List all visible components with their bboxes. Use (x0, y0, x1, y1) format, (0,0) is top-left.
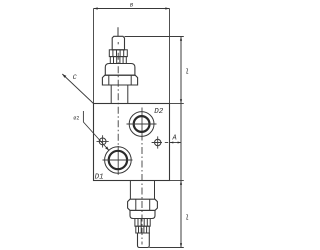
svg-text:l: l (185, 69, 189, 77)
dimension A arrows (170, 142, 181, 144)
top cap extension line to right (125, 36, 184, 38)
svg-text:D2: D2 (154, 108, 164, 116)
bottom cartridge hex nut facet lines (136, 199, 150, 210)
small hole o2 (99, 138, 106, 145)
dimension B arrows (94, 7, 170, 9)
top cartridge hex nut facet lines (109, 75, 131, 85)
upper l arrows (180, 37, 182, 104)
top cartridge hex nut (102, 75, 137, 85)
top cartridge collar (105, 64, 135, 76)
top cartridge cap (112, 36, 124, 50)
svg-text:A: A (172, 135, 177, 143)
small hole right crosshair (152, 136, 162, 148)
bottom cartridge tip (138, 233, 150, 248)
port D2 bold inner circle (134, 116, 150, 132)
port D1 bold inner circle (109, 151, 127, 169)
dimension B extension line left (93, 9, 95, 104)
lower l arrows (180, 181, 182, 248)
bottom cartridge neck (130, 181, 154, 200)
bottom cartridge collar (130, 210, 155, 218)
dimension B line (94, 8, 170, 10)
svg-text:ø2: ø2 (73, 115, 79, 121)
svg-text:D1: D1 (95, 174, 104, 182)
dimension A line (170, 142, 181, 144)
small hole o2 crosshair (97, 135, 109, 147)
svg-text:B: B (130, 1, 134, 8)
leader C line (62, 74, 93, 104)
right vertical dimension line (180, 37, 182, 248)
body bottom edge extension right (170, 180, 184, 182)
valve body block (94, 104, 170, 181)
body top edge extension right (170, 103, 184, 105)
bottom cartridge thread band 1 (135, 219, 150, 227)
dimension B extension line right (169, 9, 171, 104)
top cartridge neck (111, 85, 128, 104)
port D2 horizontal centerline (127, 123, 157, 125)
bottom cartridge thread band 2 (136, 226, 150, 233)
bottom cartridge centerline (141, 108, 143, 245)
port D1 outer circle (105, 147, 132, 174)
top cartridge stem (117, 27, 119, 36)
small hole right (A) (155, 139, 161, 145)
port D2 outer circle (129, 112, 154, 137)
svg-text:l: l (185, 215, 189, 223)
centerline dash between hole and edge (165, 142, 168, 144)
leader o2 line (83, 111, 109, 151)
leader o2 arrowhead (105, 147, 109, 151)
bottom cartridge hex nut (128, 199, 158, 210)
top cartridge thread band 2 (110, 57, 126, 64)
svg-text:C: C (73, 74, 78, 82)
port D1 horizontal centerline (103, 159, 133, 161)
leader C arrowhead (62, 74, 66, 78)
top cartridge thread band 1 (109, 50, 127, 57)
top cartridge centerline (117, 42, 119, 175)
bottom tip extension right (149, 247, 184, 249)
